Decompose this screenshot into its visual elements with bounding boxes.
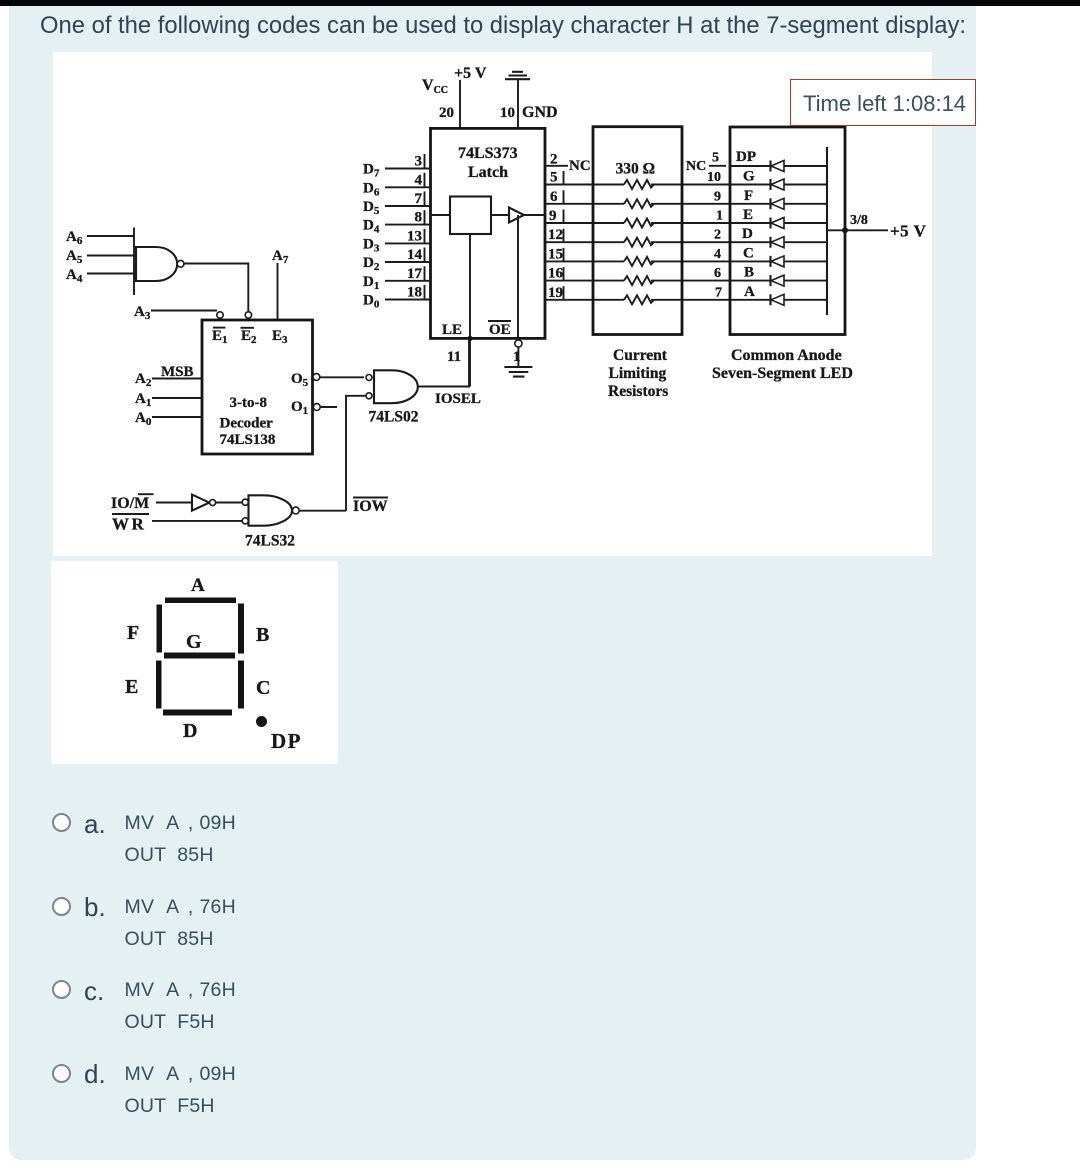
svg-text:17: 17 — [407, 266, 423, 282]
svg-text:D5: D5 — [363, 199, 380, 217]
svg-text:B: B — [744, 265, 754, 281]
svg-text:G: G — [186, 631, 202, 653]
svg-text:7: 7 — [415, 191, 423, 207]
svg-text:16: 16 — [548, 266, 564, 282]
svg-text:11: 11 — [447, 349, 461, 365]
svg-text:18: 18 — [407, 285, 422, 301]
svg-text:B: B — [256, 624, 269, 646]
svg-text:A: A — [744, 284, 755, 300]
svg-text:IO/M: IO/M — [111, 495, 149, 512]
svg-text:A5: A5 — [66, 248, 83, 266]
svg-text:330 Ω: 330 Ω — [616, 161, 656, 178]
svg-text:4: 4 — [415, 172, 423, 188]
svg-text:G: G — [743, 169, 755, 185]
svg-text:IOSEL: IOSEL — [435, 391, 481, 407]
svg-text:10: 10 — [500, 105, 515, 121]
svg-text:Common Anode: Common Anode — [731, 347, 842, 364]
svg-text:IOW: IOW — [353, 498, 388, 515]
svg-text:74LS32: 74LS32 — [245, 533, 295, 550]
svg-text:O5: O5 — [291, 371, 309, 389]
svg-text:Latch: Latch — [468, 164, 508, 181]
svg-text:A4: A4 — [66, 267, 83, 285]
svg-text:Current: Current — [613, 347, 668, 364]
svg-text:12: 12 — [548, 227, 563, 243]
svg-text:+5 V: +5 V — [890, 222, 927, 241]
svg-text:OE: OE — [489, 322, 511, 338]
svg-text:4: 4 — [714, 247, 721, 262]
svg-text:E1: E1 — [212, 328, 228, 346]
svg-text:F: F — [127, 622, 139, 644]
svg-text:A2: A2 — [135, 371, 152, 389]
svg-text:D1: D1 — [363, 274, 379, 292]
svg-text:A3: A3 — [134, 304, 151, 322]
svg-text:LE: LE — [442, 322, 462, 338]
svg-text:3: 3 — [415, 154, 423, 170]
svg-text:1: 1 — [716, 209, 723, 224]
svg-text:15: 15 — [548, 246, 563, 262]
svg-text:6: 6 — [714, 266, 721, 281]
svg-text:C: C — [256, 677, 270, 699]
svg-text:3/8: 3/8 — [850, 213, 868, 228]
svg-text:74LS02: 74LS02 — [369, 409, 419, 426]
svg-text:DP: DP — [271, 729, 302, 753]
svg-text:20: 20 — [439, 105, 454, 121]
svg-text:A1: A1 — [135, 391, 151, 409]
svg-text:8: 8 — [415, 210, 423, 226]
svg-text:E2: E2 — [241, 328, 257, 346]
svg-text:NC: NC — [569, 158, 591, 174]
svg-text:E: E — [743, 207, 753, 223]
svg-text:D7: D7 — [363, 162, 380, 180]
svg-text:A0: A0 — [135, 410, 152, 428]
svg-text:9: 9 — [549, 208, 557, 224]
svg-text:74LS138: 74LS138 — [220, 432, 276, 448]
svg-text:D: D — [742, 226, 753, 242]
svg-text:74LS373: 74LS373 — [458, 145, 518, 162]
svg-text:E: E — [125, 676, 138, 698]
svg-text:1: 1 — [513, 349, 521, 365]
svg-text:DP: DP — [736, 149, 756, 165]
svg-text:10: 10 — [707, 170, 721, 185]
svg-text:7: 7 — [715, 285, 722, 300]
svg-text:O1: O1 — [291, 399, 308, 417]
svg-text:D3: D3 — [363, 236, 380, 254]
svg-text:D4: D4 — [363, 218, 380, 236]
svg-text:A: A — [191, 575, 205, 596]
svg-text:5: 5 — [550, 170, 558, 186]
svg-text:D6: D6 — [363, 180, 380, 198]
svg-text:GND: GND — [522, 104, 558, 121]
svg-text:Resistors: Resistors — [608, 383, 668, 400]
svg-text:2: 2 — [714, 228, 721, 243]
svg-text:14: 14 — [407, 247, 423, 263]
svg-text:VCC: VCC — [422, 77, 448, 96]
svg-text:A7: A7 — [272, 248, 289, 266]
svg-text:C: C — [743, 245, 754, 261]
svg-text:9: 9 — [714, 189, 721, 204]
svg-text:NC: NC — [686, 159, 706, 174]
svg-text:6: 6 — [550, 189, 558, 205]
svg-text:3-to-8: 3-to-8 — [230, 395, 268, 411]
svg-text:Decoder: Decoder — [220, 416, 274, 432]
svg-text:D: D — [183, 720, 197, 742]
svg-text:5: 5 — [712, 151, 719, 166]
svg-text:Seven-Segment LED: Seven-Segment LED — [712, 365, 853, 382]
svg-text:WR: WR — [112, 515, 146, 534]
svg-text:13: 13 — [407, 228, 422, 244]
svg-text:19: 19 — [548, 285, 563, 301]
svg-text:D2: D2 — [363, 255, 380, 273]
svg-text:E3: E3 — [272, 328, 288, 346]
svg-text:+5 V: +5 V — [454, 65, 487, 82]
svg-text:A6: A6 — [66, 229, 83, 247]
svg-text:F: F — [744, 188, 753, 204]
svg-text:Limiting: Limiting — [609, 365, 667, 382]
svg-text:D0: D0 — [363, 293, 380, 311]
